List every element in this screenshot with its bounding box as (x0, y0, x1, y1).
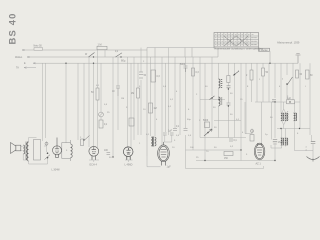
transformer core (26, 142, 27, 161)
svg-text:2: 2 (246, 75, 248, 77)
svg-text:Netz 50: Netz 50 (34, 44, 43, 47)
IF transformer T1 upper coil (219, 79, 223, 88)
AC mains capacitor (311, 141, 316, 143)
node (junction) (228, 88, 229, 89)
svg-text:0,2: 0,2 (230, 146, 234, 148)
svg-text:10: 10 (112, 91, 115, 93)
right resistor Rd (306, 70, 310, 79)
switch S3 (233, 71, 239, 76)
choke L2 winding (294, 113, 297, 121)
svg-text:2µ: 2µ (265, 134, 268, 136)
cap near V3 (229, 139, 233, 141)
svg-text:BS 40: BS 40 (7, 12, 18, 44)
tube V5 (magic eye) (53, 138, 62, 158)
svg-text:2M: 2M (131, 93, 134, 95)
svg-text:ECH 4: ECH 4 (90, 163, 98, 166)
wire top bus to oscillator (147, 48, 215, 156)
speaker wires (21, 147, 23, 151)
svg-text:150: 150 (224, 158, 229, 160)
tube V2 (123, 147, 133, 160)
caps row above bottom bus (173, 129, 188, 131)
svg-text:25: 25 (107, 112, 110, 114)
capacitor C6 (139, 72, 143, 78)
svg-text:L 304W: L 304W (52, 169, 61, 172)
mains choke L1 winding a (281, 113, 284, 121)
vertical wires center section (162, 48, 212, 160)
smoothing box (287, 100, 295, 104)
svg-text:1: 1 (139, 143, 141, 145)
volume pot wiper (84, 136, 90, 141)
resistor R7 (151, 70, 156, 82)
node (228, 105, 229, 106)
scattered value labels (66, 59, 306, 160)
right comb resistor Ra (250, 70, 253, 80)
svg-text:0,3: 0,3 (157, 76, 161, 78)
svg-text:25: 25 (196, 157, 199, 159)
cap on line (272, 100, 276, 102)
svg-text:5: 5 (246, 154, 248, 156)
svg-text:1 M: 1 M (98, 43, 102, 46)
resistor column R2 (96, 88, 99, 100)
svg-text:0,1: 0,1 (104, 124, 108, 126)
variable arrow (204, 129, 212, 136)
trimmer C t (99, 112, 104, 117)
svg-text:60: 60 (300, 74, 303, 76)
svg-text:5: 5 (66, 150, 68, 152)
svg-text:f: f (282, 79, 283, 81)
svg-text:AZ 1: AZ 1 (256, 163, 262, 166)
svg-text:60: 60 (310, 75, 313, 77)
right switch S4 (286, 77, 292, 85)
tube V1 ECH4 (89, 146, 99, 160)
IF cap C upper (227, 86, 231, 88)
svg-text:4: 4 (242, 132, 244, 134)
pickup contact circle (45, 142, 48, 145)
svg-text:4: 4 (156, 119, 158, 121)
tube V3 output AL4 (158, 142, 170, 166)
svg-text:Allstromempf. 1939: Allstromempf. 1939 (277, 41, 300, 45)
table header ticks (215, 34, 257, 44)
svg-text:50: 50 (230, 93, 233, 95)
capacitor C10 (184, 66, 188, 72)
resistor R11 (192, 68, 195, 76)
resistor in IF box (205, 122, 210, 128)
svg-text:f: f (305, 86, 306, 88)
svg-text:6: 6 (297, 133, 299, 135)
grid cap C (107, 153, 111, 155)
switch S5 IF (210, 96, 215, 100)
resistor on top bus (97, 46, 107, 49)
svg-text:100: 100 (104, 150, 109, 152)
contact arrow (45, 155, 51, 160)
svg-text:0,5: 0,5 (163, 86, 167, 88)
svg-text:1µF: 1µF (167, 166, 172, 169)
svg-text:30: 30 (214, 127, 217, 129)
svg-text:100: 100 (190, 147, 194, 149)
svg-text:W: W (85, 54, 88, 56)
loudspeaker LS (11, 143, 21, 154)
svg-text:f: f (222, 83, 223, 85)
V2 cathode wires (125, 160, 133, 162)
svg-text:30: 30 (213, 107, 216, 109)
svg-text:TA: TA (16, 67, 19, 70)
svg-text:0,1: 0,1 (168, 106, 172, 108)
resistor R9 (129, 118, 134, 126)
wire speaker loop (23, 138, 47, 165)
svg-text:5000: 5000 (180, 64, 186, 66)
svg-text:a: a (287, 111, 289, 113)
wire PSU left (245, 102, 272, 143)
choke lead wires (282, 102, 295, 129)
series capacitor on antenna lead (34, 48, 43, 51)
svg-text:4: 4 (176, 91, 178, 93)
svg-text:2: 2 (80, 137, 82, 139)
mains choke L1 winding b (285, 113, 288, 121)
antenna stub right (296, 54, 301, 64)
svg-text:50: 50 (205, 86, 208, 88)
svg-text:L 496D: L 496D (125, 163, 133, 166)
svg-text:4 Wellen: 4 Wellen (259, 50, 269, 52)
tube socket table (214, 33, 259, 49)
svg-text:50: 50 (91, 92, 94, 94)
contact dots (47, 152, 49, 154)
small neon box (250, 129, 254, 141)
svg-text:6: 6 (188, 109, 190, 111)
output transformer T2 primary (27, 142, 29, 161)
rectifier V4 AZ1 (254, 143, 264, 160)
capacitor C4 (116, 86, 120, 96)
svg-text:Röhrensockel Schaltung v. unte: Röhrensockel Schaltung v. unten gesehen (215, 47, 264, 50)
right resistor Rc (296, 70, 299, 78)
svg-text:1: 1 (259, 79, 261, 81)
svg-text:8: 8 (247, 86, 249, 88)
antenna input A1 (22, 49, 147, 51)
svg-text:10: 10 (143, 109, 146, 111)
table X marks (224, 36, 249, 46)
V1 cathode wires (89, 160, 99, 162)
mains earth wire (312, 144, 314, 159)
svg-text:Wellen: Wellen (15, 56, 23, 59)
vertical wires left section (43, 48, 156, 157)
svg-text:0,1: 0,1 (176, 126, 180, 128)
IF transformer T1 lower coil (219, 97, 223, 106)
cathode resistor box (224, 152, 233, 156)
svg-text:5000: 5000 (203, 120, 209, 122)
svg-text:50: 50 (214, 147, 217, 149)
aux input (24, 67, 36, 69)
svg-text:4µF: 4µF (287, 98, 292, 100)
field coil box (34, 140, 41, 161)
svg-text:0,5: 0,5 (104, 104, 108, 106)
svg-text:0,5: 0,5 (176, 135, 180, 137)
choke frame (62, 140, 71, 161)
svg-text:15: 15 (240, 99, 243, 101)
padding resistor (227, 76, 230, 83)
right comb resistor Rb (262, 68, 265, 76)
svg-text:0,1: 0,1 (170, 99, 174, 101)
wire riser from label to bus (269, 51, 271, 63)
svg-text:80µ: 80µ (121, 59, 126, 63)
svg-text:2: 2 (199, 120, 201, 122)
svg-text:2: 2 (196, 94, 198, 96)
heater winding pair (281, 138, 288, 145)
resistor R volume (81, 139, 84, 146)
svg-text:4: 4 (279, 86, 281, 88)
wave switch S1 (89, 53, 95, 58)
svg-text:50: 50 (270, 117, 273, 119)
resistor R5 (137, 88, 140, 98)
bottom bus wires (147, 102, 313, 169)
svg-text:50: 50 (266, 72, 269, 74)
svg-text:5: 5 (139, 86, 141, 88)
net label box (259, 48, 270, 51)
electrolytic C el (273, 140, 277, 145)
ground symbol (307, 157, 320, 162)
vertical wires right comb (219, 63, 312, 160)
IF cap C lower (227, 103, 231, 105)
svg-text:1M: 1M (121, 98, 124, 100)
svg-text:0,1: 0,1 (234, 140, 238, 142)
svg-text:50: 50 (109, 157, 112, 159)
svg-text:0,3: 0,3 (196, 72, 200, 74)
svg-text:1µF: 1µF (168, 131, 173, 133)
NF choke winding (71, 144, 73, 158)
svg-text:E: E (24, 62, 26, 65)
wire V3 top (164, 135, 172, 142)
svg-text:50µ: 50µ (187, 119, 191, 121)
svg-text:50: 50 (230, 114, 233, 116)
heater winding wires (271, 129, 295, 151)
svg-text:2: 2 (143, 61, 145, 63)
output transformer T2 secondary (23, 145, 25, 154)
V3 anode caps (163, 133, 174, 135)
switch S2 on bus (116, 53, 123, 58)
svg-text:0,1: 0,1 (146, 134, 150, 136)
svg-text:5: 5 (174, 140, 176, 142)
resistor R3 (99, 120, 103, 128)
svg-text:0,5: 0,5 (188, 135, 192, 137)
svg-text:70: 70 (206, 151, 209, 153)
coupling trafo T3 (151, 137, 156, 147)
svg-text:0,1: 0,1 (115, 51, 119, 53)
svg-text:1M: 1M (154, 108, 157, 110)
svg-text:10: 10 (172, 147, 175, 149)
svg-text:50: 50 (144, 75, 147, 77)
svg-text:0,1: 0,1 (96, 85, 100, 87)
wire IF link (200, 97, 241, 121)
resistor R8 (149, 103, 153, 113)
